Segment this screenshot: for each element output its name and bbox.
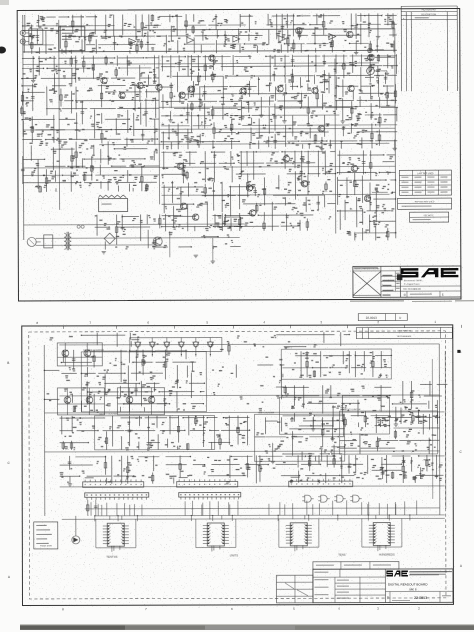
- sheet 2 revision strip: [356, 327, 452, 338]
- meter M1: [365, 67, 389, 78]
- display DS3: [286, 523, 312, 546]
- sheet 1 mesh right lower: [337, 150, 397, 240]
- ground sym power 1: [102, 252, 106, 254]
- sheet 2 mesh top rails: [49, 332, 350, 348]
- op-amp U4: [279, 36, 286, 42]
- transistor Q1: [209, 55, 215, 61]
- sheet 1 main bus wires: [23, 13, 398, 240]
- display interconnect wires: [62, 500, 445, 552]
- table see-note: [410, 212, 449, 222]
- sheet 1 mesh left block: [20, 55, 160, 192]
- AC plug P1: [27, 237, 41, 246]
- transistor Q23: [246, 185, 252, 191]
- sheet 2 mesh gap band: [212, 364, 284, 411]
- sheet 1 power supply row: [95, 214, 243, 250]
- sheet 2 mesh TL flipflops: [61, 350, 206, 413]
- svg-text:22-0013: 22-0013: [366, 316, 377, 320]
- company name text: [410, 571, 452, 575]
- sheet 1 lower edge smudge: [350, 301, 474, 302]
- transistor Q13: [119, 92, 125, 98]
- transistor Q16: [301, 180, 307, 186]
- regulator block with heatsink: [99, 195, 128, 212]
- scan smudge top-left corner: [0, 0, 9, 5]
- sheet 2 mesh cluster mid-right: [282, 385, 392, 427]
- transistor Q5: [101, 77, 107, 83]
- sheet 2 title block frame: [276, 561, 453, 602]
- note box front view: [34, 522, 58, 549]
- display DS4: [369, 523, 395, 546]
- block label: [62, 33, 76, 40]
- sheet 1 revision table: [401, 6, 457, 91]
- transistor Q21: [180, 203, 186, 209]
- op-amp U2: [187, 37, 194, 43]
- resistor pack RP1 bar: [83, 477, 144, 487]
- display feed wires: [102, 504, 396, 551]
- sheet 2 mesh time counter: [255, 417, 347, 464]
- fuse F1: [77, 225, 84, 228]
- transistor Q14: [179, 92, 185, 98]
- cluster enclosures: [81, 346, 437, 462]
- sheet 2 doc number tab: [358, 313, 407, 320]
- bridge rectifier D1: [104, 233, 115, 244]
- display DS1: [103, 523, 129, 546]
- sheet 2 outer border: [22, 325, 454, 606]
- LED DS1: [72, 536, 80, 544]
- power rail wires: [36, 231, 240, 264]
- transistor Q22: [192, 214, 198, 220]
- transistor Q20: [177, 163, 183, 169]
- input jack J1: [20, 30, 25, 35]
- op-amp U3: [233, 36, 240, 42]
- sheet 1 mesh top band: [22, 13, 397, 56]
- sheet 2 zone ticks: [7, 320, 463, 612]
- transistor Q3: [156, 84, 162, 90]
- sheet 2 mesh cluster right2: [392, 381, 448, 427]
- transistor Q2: [137, 82, 143, 88]
- relay box K1: [225, 217, 241, 226]
- transistor Q7: [277, 86, 283, 92]
- table last-ref-used: [399, 170, 451, 195]
- line filter box: [44, 235, 53, 248]
- block signal gate: [59, 27, 85, 51]
- display labels: [106, 553, 395, 559]
- op-amp U1: [129, 38, 136, 44]
- gate row U40-U43: [302, 495, 362, 502]
- sheet 2 bus rails: [44, 344, 445, 516]
- transistor Q19: [318, 125, 324, 131]
- transistor Q8: [312, 87, 318, 93]
- flip-flop cells: [57, 343, 164, 415]
- ground sym power 2: [194, 255, 198, 257]
- scan blob left edge: [0, 47, 6, 54]
- svg-text:B: B: [7, 361, 9, 365]
- SAE logo sheet 1: [401, 268, 459, 277]
- sheet 2 mesh top center sparse: [220, 341, 316, 360]
- pass transistor Q30: [153, 237, 162, 246]
- led feed wires: [76, 500, 98, 536]
- display DS2: [203, 523, 229, 546]
- input jack J2: [20, 39, 25, 44]
- connector J2 pins: [179, 492, 241, 499]
- jack THERMAL: [368, 56, 395, 61]
- transistor Q6: [240, 88, 246, 94]
- bottom page-edge strip: [20, 624, 474, 630]
- transistor Q15: [283, 156, 289, 162]
- connector J1 pins: [85, 493, 149, 500]
- transistor Q4: [188, 86, 194, 92]
- op-amp U5: [329, 34, 336, 40]
- logo stamp blob: [397, 274, 403, 280]
- sheet 2 inner margin: [29, 331, 446, 599]
- transistor Q10: [368, 54, 374, 60]
- sheet 2 mesh right counter: [339, 414, 440, 454]
- registration dot right: [457, 350, 460, 353]
- transistor Q9: [348, 85, 354, 91]
- sheet 2 mesh left col: [44, 370, 60, 401]
- sheet 2 mesh lower band: [60, 455, 445, 486]
- sheet 2 title text: [387, 571, 451, 601]
- sheet 1 mesh center: [160, 54, 398, 151]
- jack AUX OUT: [368, 48, 384, 52]
- sheet 1 outer border: [17, 8, 461, 301]
- sheet 2 mesh mid band: [60, 415, 251, 450]
- sheet 1 title block frame: [353, 266, 461, 297]
- resistor pack RP2 bar: [177, 477, 238, 487]
- transistor Q24: [249, 210, 255, 216]
- sheet 1 title block text: [400, 279, 461, 297]
- transistor cluster right: [372, 457, 431, 480]
- table ref-not-used: [398, 198, 452, 209]
- transistor Q11: [296, 28, 302, 34]
- sheet 2 mesh cluster right1: [282, 351, 392, 378]
- buffer row U20: [130, 337, 222, 356]
- transformer T1: [64, 232, 71, 251]
- resistor pack RP3 bar: [289, 477, 353, 487]
- transistor Q17: [351, 165, 357, 171]
- transistor Q18: [364, 195, 370, 201]
- svg-text:D: D: [399, 316, 401, 320]
- sheet 1 mesh mid lower: [161, 151, 337, 232]
- transistor Q12: [347, 31, 353, 37]
- SAE logo sheet 2: [386, 570, 408, 576]
- input filter box: [26, 29, 43, 45]
